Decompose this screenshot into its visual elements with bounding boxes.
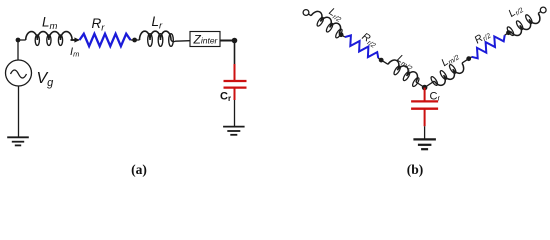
terminal (right branch) [540, 7, 546, 13]
inductor Lm [26, 32, 72, 40]
wire: Rr to node B [131, 39, 135, 41]
wire: capacitor to ground (b) [424, 126, 426, 139]
wire: top-left vertical from node to source [17, 40, 19, 61]
wire: junction to Rr/2 (right) [505, 33, 509, 36]
node: Lr/2 - Rr/2 junction (left) [339, 32, 344, 37]
node A (top-left junction) [16, 38, 21, 43]
svg-text:Lm/2: Lm/2 [439, 49, 461, 69]
wire: Lr/2 to junction (left) [339, 33, 341, 34]
inductor Lr/2 (left) [308, 9, 345, 39]
svg-text:(a): (a) [131, 162, 147, 177]
wire: junction to Lm/2 (right) [462, 59, 469, 63]
wire: terminal to Lr/2 (right) [538, 12, 541, 14]
node B (Rr-Lr junction) [132, 38, 137, 43]
terminal (left branch) [303, 10, 309, 16]
wire: Lm to arrow [72, 39, 79, 41]
wire: terminal to Lr/2 (left) [309, 14, 312, 16]
inductor Lr [140, 31, 172, 40]
ground (b) [413, 138, 436, 140]
capacitor Cr (a) [234, 64, 236, 81]
svg-text:Vg: Vg [37, 70, 55, 89]
resistor Rr/2 (left) [345, 35, 378, 58]
svg-text:Lr/2: Lr/2 [506, 2, 525, 20]
svg-text:Cr: Cr [220, 90, 231, 103]
svg-text:Zinter: Zinter [193, 33, 219, 47]
wire: Rr/2 to junction (left) [378, 58, 381, 60]
wire: box to node C [220, 40, 235, 42]
wire: node to Lr [135, 39, 140, 41]
svg-text:Rr: Rr [92, 16, 106, 34]
wire: Lm/2 to center node (right) [425, 81, 435, 87]
svg-text:Lr/2: Lr/2 [326, 6, 345, 24]
capacitor Cr (b) [424, 88, 426, 102]
resistor Rr [80, 34, 131, 46]
node: Rr/2 - Lm/2 junction (left) [379, 58, 384, 63]
AC source Vg [6, 60, 32, 86]
svg-text:Cr: Cr [430, 90, 441, 102]
inductor Lr/2 (right) [506, 9, 542, 39]
svg-text:Rr/2: Rr/2 [359, 31, 379, 50]
wire: junction to Rr/2 (left) [341, 35, 345, 37]
svg-text:Lm: Lm [42, 14, 58, 32]
wire: Lr/2 to junction (right) [509, 31, 511, 32]
node: Rr/2 - Lm/2 junction (right) [466, 56, 471, 61]
wire: Lr to Zinter box [171, 40, 190, 42]
wire: source to ground [18, 86, 20, 137]
resistor Rr/2 (right) [472, 35, 505, 58]
ground (right, under Cr) [223, 126, 245, 128]
svg-text:(b): (b) [407, 162, 424, 177]
wire: capacitor to ground [234, 100, 236, 127]
wire: node to Lm [18, 39, 26, 41]
inductor Lm/2 (left) [385, 58, 422, 88]
current arrow Im [71, 39, 76, 41]
ground (left, under Vg) [7, 136, 29, 138]
wire: node C down to capacitor [234, 41, 236, 66]
impedance box Zinter [190, 32, 220, 47]
node: Lr/2 - Rr/2 junction (right) [506, 30, 511, 35]
node C (top-right junction) [232, 38, 238, 44]
wire: Rr/2 to junction (right) [469, 57, 472, 59]
center node (b) [422, 85, 428, 91]
wire: Lm/2 to center node (left) [416, 82, 425, 88]
svg-text:Lr: Lr [152, 14, 164, 32]
svg-text:Im: Im [70, 46, 79, 59]
wire: junction to Lm/2 (left) [381, 60, 388, 64]
inductor Lm/2 (right) [430, 59, 466, 89]
